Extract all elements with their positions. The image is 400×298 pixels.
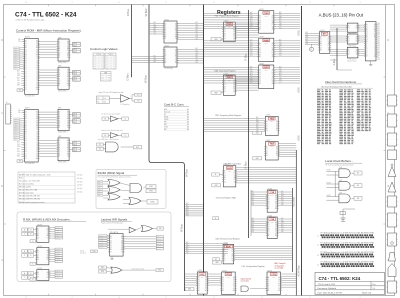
- svg-text:D05: D05: [306, 35, 309, 37]
- svg-text:LS244: LS244: [268, 215, 273, 217]
- svg-text:M2 LDB, LDB4, FID CFB, GW: M2 LDB, LDB4, FID CFB, GW: [19, 196, 40, 198]
- svg-text:D4: D4: [67, 72, 69, 74]
- svg-text:6: 6: [118, 2, 119, 4]
- svg-text:Q5: Q5: [328, 41, 330, 43]
- svg-text:D4: D4: [47, 252, 49, 254]
- svg-text:Date: 2017-05-30, 7:57 PM: Date: 2017-05-30, 7:57 PM: [318, 291, 342, 294]
- svg-text:D05: D05: [281, 220, 284, 222]
- svg-text:D1: D1: [259, 72, 261, 74]
- svg-text:Q8: Q8: [67, 151, 69, 153]
- svg-text:WR2: WR2: [306, 37, 309, 39]
- svg-text:CE1: CE1: [18, 112, 21, 114]
- svg-text:AOX: AOX: [297, 135, 301, 141]
- svg-text:LS157: LS157: [224, 164, 229, 166]
- svg-text:D1: D1: [36, 89, 38, 91]
- svg-text:RD1: RD1: [281, 200, 284, 202]
- svg-text:D1: D1: [348, 52, 350, 54]
- svg-text:3: 3: [261, 2, 262, 4]
- svg-text:Q14: Q14: [98, 195, 101, 197]
- svg-text:GND: GND: [18, 161, 21, 163]
- svg-text:RD1: RD1: [279, 75, 282, 77]
- svg-text:Q5: Q5: [67, 46, 69, 48]
- svg-text:MIR.B: MIR.B: [73, 74, 77, 76]
- svg-text:Q2: Q2: [259, 47, 261, 49]
- svg-text:RD1: RD1: [306, 41, 309, 43]
- svg-text:Q5: Q5: [224, 181, 226, 183]
- svg-text:D4: D4: [198, 286, 200, 288]
- svg-text:D1: D1: [110, 238, 112, 240]
- svg-text:Q8: Q8: [25, 58, 27, 60]
- svg-text:D: D: [388, 39, 390, 42]
- svg-text:DWR: DWR: [264, 67, 270, 69]
- svg-text:MIR.B: MIR.B: [73, 80, 77, 82]
- svg-text:WR2: WR2: [186, 246, 189, 248]
- svg-text:Q2: Q2: [366, 28, 368, 30]
- svg-text:D05: D05: [250, 14, 253, 16]
- svg-text:TC2: TC2: [106, 60, 109, 62]
- svg-text:LS74 (pipeline): LS74 (pipeline): [121, 104, 130, 106]
- svg-text:ROM 0: ROM 0: [25, 37, 30, 39]
- svg-text:Q8: Q8: [272, 26, 274, 28]
- svg-text:CK0: CK0: [250, 23, 253, 25]
- svg-text:Q8: Q8: [272, 81, 274, 83]
- svg-text:D4: D4: [37, 259, 39, 261]
- svg-text:D1: D1: [222, 279, 224, 281]
- svg-text:Q5: Q5: [234, 175, 236, 177]
- svg-text:D4: D4: [272, 45, 274, 47]
- svg-text:D1: D1: [266, 149, 268, 151]
- svg-text:C74 - TTL 6502: K24: C74 - TTL 6502: K24: [319, 276, 361, 281]
- svg-text:PHI2: PHI2: [149, 191, 153, 193]
- svg-text:RD1: RD1: [279, 48, 282, 50]
- svg-text:GND: GND: [215, 262, 218, 264]
- svg-text:Q8: Q8: [233, 91, 235, 93]
- svg-text:Q5: Q5: [67, 145, 69, 147]
- svg-text:G/Q: G/Q: [200, 274, 204, 276]
- svg-text:RD1: RD1: [17, 80, 20, 82]
- svg-text:D4: D4: [165, 32, 167, 34]
- svg-text:Q5: Q5: [276, 126, 278, 128]
- svg-text:Q8: Q8: [272, 54, 274, 56]
- svg-text:Inter-Card Connections: Inter-Card Connections: [325, 80, 357, 84]
- svg-text:LS299: LS299: [270, 121, 274, 123]
- svg-text:Q14: Q14: [279, 28, 282, 30]
- svg-text:Control ROM - MIR (Micro-Instr: Control ROM - MIR (Micro-Instruction Reg…: [16, 29, 82, 33]
- svg-text:Q5: Q5: [25, 123, 27, 125]
- svg-text:LS245: LS245: [164, 45, 169, 47]
- svg-text:CK0: CK0: [252, 229, 255, 231]
- svg-text:LS299: LS299: [264, 43, 268, 45]
- svg-text:Q5: Q5: [231, 254, 233, 256]
- svg-text:Q14: Q14: [196, 38, 199, 40]
- svg-text:Q5: Q5: [36, 116, 38, 118]
- svg-text:G: G: [32, 263, 33, 265]
- svg-text:LS574: LS574: [320, 30, 325, 32]
- svg-text:Q5: Q5: [320, 47, 322, 49]
- svg-text:x00 0(x): x00 0(x): [77, 181, 83, 183]
- svg-text:D1: D1: [165, 26, 167, 28]
- svg-text:Q5: Q5: [67, 74, 69, 76]
- svg-text:RD1: RD1: [186, 250, 189, 252]
- svg-text:WR: WR: [159, 228, 161, 230]
- svg-text:TC1: TC1: [106, 58, 109, 60]
- svg-text:WR2: WR2: [281, 195, 284, 197]
- svg-text:Q8: Q8: [67, 123, 69, 125]
- svg-text:D4: D4: [259, 24, 261, 26]
- svg-text:WR2: WR2: [154, 59, 157, 61]
- svg-text:Φ1/Φ2 (6502) Signal: Φ1/Φ2 (6502) Signal: [98, 171, 125, 175]
- svg-text:Q2: Q2: [259, 74, 261, 76]
- svg-text:D7: D7: [275, 231, 277, 233]
- svg-text:Q2: Q2: [59, 145, 61, 147]
- svg-text:D7: D7: [165, 38, 167, 40]
- svg-text:MIR.B: MIR.B: [73, 144, 77, 146]
- svg-text:CE0: CE0: [18, 39, 21, 41]
- svg-text:D4: D4: [121, 238, 123, 240]
- svg-text:Rev: Rev: [373, 284, 376, 286]
- svg-text:CK0: CK0: [252, 202, 255, 204]
- svg-text:D4: D4: [275, 197, 277, 199]
- svg-text:D7: D7: [59, 85, 61, 87]
- svg-text:IO5: IO5: [14, 139, 16, 141]
- svg-text:Q8: Q8: [234, 181, 236, 183]
- svg-text:D4: D4: [36, 43, 38, 45]
- svg-text:CH: Drive Register High: CH: Drive Register High: [216, 197, 236, 200]
- svg-text:D7: D7: [278, 286, 280, 288]
- svg-text:D1: D1: [59, 72, 61, 74]
- svg-text:W Bus: W Bus: [143, 74, 147, 82]
- svg-text:D4: D4: [36, 114, 38, 116]
- svg-text:WR2: WR2: [252, 222, 255, 224]
- svg-text:J2: J2: [317, 245, 319, 247]
- svg-text:AOX: AOX: [297, 87, 301, 93]
- svg-text:CK0: CK0: [279, 77, 282, 79]
- svg-text:C: C: [24, 255, 25, 257]
- svg-text:D4: D4: [268, 204, 270, 206]
- svg-text:0x6: 0x6: [101, 68, 103, 70]
- svg-text:LS299: LS299: [227, 277, 231, 279]
- svg-text:D4: D4: [233, 279, 235, 281]
- svg-text:Q8: Q8: [67, 52, 69, 54]
- svg-text:D7: D7: [272, 79, 274, 81]
- svg-text:B: B: [30, 251, 31, 253]
- svg-text:A23 Bus: A23 Bus: [292, 196, 296, 207]
- svg-text:PWR: PWR: [264, 40, 270, 42]
- svg-text:D1: D1: [348, 38, 350, 40]
- svg-text:Q2: Q2: [222, 281, 224, 283]
- svg-text:S0: S0: [99, 148, 101, 150]
- svg-text:D7: D7: [366, 37, 368, 39]
- svg-text:BU5: Environmental Register: BU5: Environmental Register: [216, 238, 241, 241]
- svg-text:AOX: AOX: [297, 30, 301, 36]
- svg-text:Q5: Q5: [233, 281, 235, 283]
- svg-text:Q5: Q5: [59, 81, 61, 83]
- svg-text:Q14: Q14: [250, 55, 253, 57]
- svg-text:CK0: CK0: [250, 77, 253, 79]
- svg-text:CK: CK: [104, 135, 106, 137]
- svg-text:D7: D7: [36, 120, 38, 122]
- svg-text:WR2: WR2: [250, 71, 253, 73]
- svg-text:D4: D4: [37, 238, 39, 240]
- svg-text:C: C: [24, 277, 25, 279]
- svg-text:WR2: WR2: [281, 222, 284, 224]
- svg-text:Sheet: 1/3: Sheet: 1/3: [362, 291, 372, 294]
- svg-text:Q5: Q5: [268, 233, 270, 235]
- svg-text:Q5: Q5: [278, 281, 280, 283]
- svg-text:GND: GND: [215, 185, 218, 187]
- svg-text:LS299: LS299: [264, 70, 268, 72]
- svg-text:EN3: EN3: [281, 204, 284, 206]
- svg-text:Q2: Q2: [224, 175, 226, 177]
- svg-text:D7: D7: [47, 238, 49, 240]
- svg-text:(MIR) (MIR) 1: (MIR) (MIR) 1: [58, 162, 67, 164]
- svg-text:D05: D05: [252, 220, 255, 222]
- svg-text:Q14: Q14: [250, 82, 253, 84]
- svg-text:TC2: TC2: [101, 78, 104, 80]
- svg-text:WR2: WR2: [279, 16, 282, 18]
- svg-text:Q2: Q2: [268, 199, 270, 201]
- svg-text:C: C: [1, 112, 3, 115]
- svg-text:WR2: WR2: [252, 195, 255, 197]
- svg-text:Q5: Q5: [59, 151, 61, 153]
- svg-text:D4: D4: [224, 258, 226, 260]
- svg-text:CK0: CK0: [154, 33, 157, 35]
- svg-text:D7: D7: [47, 259, 49, 261]
- svg-text:D05: D05: [250, 69, 253, 71]
- svg-text:EN3: EN3: [252, 204, 255, 206]
- svg-text:TC5: TC5: [94, 66, 97, 68]
- svg-text:MIR.B: MIR.B: [73, 150, 77, 152]
- svg-text:EN3: EN3: [17, 85, 20, 87]
- svg-text:Q2: Q2: [348, 54, 350, 56]
- svg-text:RD1: RD1: [196, 32, 199, 34]
- svg-text:D1: D1: [59, 44, 61, 46]
- svg-text:Document: Subburb: Document: Subburb: [318, 287, 337, 290]
- svg-text:D7: D7: [272, 52, 274, 54]
- svg-text:1: 1: [359, 2, 360, 4]
- svg-text:D7: D7: [67, 149, 69, 151]
- svg-text:CPQ: CPQ: [271, 274, 276, 276]
- svg-text:LS245: LS245: [164, 19, 169, 21]
- svg-text:Q2: Q2: [59, 116, 61, 118]
- svg-text:Q5: Q5: [165, 34, 167, 36]
- svg-text:0x1: 0x1: [108, 76, 110, 78]
- svg-text:D4: D4: [268, 286, 270, 288]
- svg-text:RD1: RD1: [196, 57, 199, 59]
- svg-text:D05: D05: [279, 69, 282, 71]
- svg-text:x00 0(x): x00 0(x): [77, 192, 83, 194]
- svg-text:Q2: Q2: [37, 233, 39, 235]
- svg-text:D7: D7: [234, 179, 236, 181]
- svg-text:Q2: Q2: [198, 281, 200, 283]
- svg-text:CE0: CE0: [18, 110, 21, 112]
- svg-text:A Bus: A Bus: [332, 58, 336, 65]
- svg-text:D4: D4: [266, 130, 268, 132]
- svg-text:Q8: Q8: [36, 123, 38, 125]
- svg-text:0x2: 0x2: [113, 60, 115, 62]
- svg-text:P-47/00R-M52: P-47/00R-M52: [25, 95, 35, 97]
- svg-text:4: 4: [213, 2, 214, 4]
- svg-text:Q5: Q5: [259, 54, 261, 56]
- svg-text:D7: D7: [175, 58, 177, 60]
- svg-text:Q2: Q2: [266, 126, 268, 128]
- svg-text:Q8: Q8: [233, 288, 235, 290]
- svg-text:EN3: EN3: [279, 80, 282, 82]
- svg-text:D4: D4: [59, 50, 61, 52]
- svg-text:Q2: Q2: [59, 74, 61, 76]
- svg-text:Q5: Q5: [198, 288, 200, 290]
- svg-text:D05: D05: [281, 193, 284, 195]
- svg-text:D1: D1: [59, 142, 61, 144]
- svg-text:Q8: Q8: [205, 288, 207, 290]
- svg-text:74LS245 (B): 74LS245 (B): [164, 68, 173, 70]
- svg-text:0x0: 0x0: [113, 56, 115, 58]
- svg-text:7: 7: [71, 2, 72, 4]
- svg-text:GND: GND: [256, 133, 259, 135]
- svg-text:Q5: Q5: [59, 52, 61, 54]
- svg-text:D4: D4: [25, 120, 27, 122]
- svg-text:WRL: WRL: [101, 271, 104, 273]
- svg-text:LS377: LS377: [266, 140, 271, 142]
- svg-text:WR2: WR2: [196, 53, 199, 55]
- svg-text:Q5: Q5: [272, 20, 274, 22]
- svg-text:D05: D05: [186, 205, 189, 207]
- svg-text:D4: D4: [25, 50, 27, 52]
- svg-text:Q5: Q5: [25, 52, 27, 54]
- svg-text:(LS-04: (LS-04: [80, 251, 84, 253]
- svg-text:D4: D4: [272, 18, 274, 20]
- svg-text:D7: D7: [232, 258, 234, 260]
- svg-text:Card B-C Conn: Card B-C Conn: [164, 103, 184, 107]
- svg-text:WR2: WR2: [279, 71, 282, 73]
- svg-text:MIR.B: MIR.B: [73, 45, 77, 47]
- svg-text:C: C: [24, 234, 25, 236]
- svg-text:Q5: Q5: [259, 81, 261, 83]
- svg-text:LS299: LS299: [270, 195, 274, 197]
- svg-text:S/STB: S/STB: [326, 170, 330, 172]
- svg-text:D1: D1: [268, 197, 270, 199]
- svg-text:TC5: TC5: [106, 66, 109, 68]
- svg-text:x00 0(x): x00 0(x): [77, 178, 83, 180]
- svg-text:Q5: Q5: [47, 254, 49, 256]
- svg-text:D4: D4: [278, 279, 280, 281]
- svg-text:D4: D4: [232, 251, 234, 253]
- svg-text:PH2: PH2: [101, 267, 104, 269]
- svg-text:Control Logic Values: Control Logic Values: [90, 47, 118, 51]
- svg-text:TC4: TC4: [106, 64, 109, 66]
- svg-text:LS299: LS299: [259, 37, 264, 39]
- svg-text:GND: GND: [18, 90, 21, 92]
- svg-text:D05: D05: [279, 14, 282, 16]
- svg-text:CK0: CK0: [256, 128, 259, 130]
- svg-text:D4: D4: [224, 179, 226, 181]
- svg-text:W Bud: W Bud: [144, 8, 148, 16]
- svg-text:CK0: CK0: [196, 34, 199, 36]
- svg-text:D7: D7: [276, 155, 278, 157]
- svg-text:D1: D1: [259, 18, 261, 20]
- svg-text:D1: D1: [348, 28, 350, 30]
- svg-text:D: D: [1, 39, 3, 42]
- svg-text:Q1: Q1: [104, 102, 106, 104]
- svg-text:(MIR) (MIR) 1: (MIR) (MIR) 1: [58, 62, 67, 64]
- svg-text:D1: D1: [37, 274, 39, 276]
- svg-text:1 3 5 7 9 11 13 15 17: 1 3 5 7 9 11 13 15 17 19 21 23 25 27 29 …: [320, 248, 347, 250]
- svg-text:D4: D4: [205, 279, 207, 281]
- svg-text:Q8: Q8: [275, 233, 277, 235]
- svg-text:(MIR) (MIR) 1: (MIR) (MIR) 1: [58, 90, 67, 92]
- svg-text:LS299: LS299: [259, 63, 264, 65]
- svg-text:LS374: LS374: [222, 270, 227, 272]
- svg-text:D4: D4: [259, 79, 261, 81]
- svg-text:EN3: EN3: [281, 231, 284, 233]
- svg-text:Q8: Q8: [121, 247, 123, 249]
- svg-text:D1: D1: [37, 231, 39, 233]
- svg-text:Q5: Q5: [59, 123, 61, 125]
- svg-text:R Bus: R Bus: [244, 161, 248, 169]
- svg-text:D4: D4: [59, 78, 61, 80]
- svg-text:D4: D4: [67, 142, 69, 144]
- svg-text:TC2: TC2: [94, 60, 97, 62]
- svg-text:WR2: WR2: [17, 146, 20, 148]
- svg-text:Local Clock Buffers...: Local Clock Buffers...: [325, 159, 353, 163]
- svg-text:TC0: TC0: [101, 75, 104, 77]
- svg-text:D4: D4: [374, 26, 376, 28]
- svg-text:Q8: Q8: [175, 60, 177, 62]
- svg-text:Q5: Q5: [224, 91, 226, 93]
- svg-text:D4: D4: [59, 120, 61, 122]
- svg-text:D4: D4: [266, 155, 268, 157]
- svg-text:LS299: LS299: [264, 15, 268, 17]
- svg-text:Q2: Q2: [37, 254, 39, 256]
- svg-text:D4: D4: [328, 39, 330, 41]
- svg-text:WR2: WR2: [186, 207, 189, 209]
- svg-text:Q8: Q8: [175, 34, 177, 36]
- svg-text:Q8: Q8: [25, 129, 27, 131]
- svg-text:D4: D4: [356, 38, 358, 40]
- svg-text:0x5: 0x5: [101, 66, 103, 68]
- svg-text:W Bus: W Bus: [180, 223, 184, 231]
- svg-text:D1: D1: [165, 52, 167, 54]
- svg-text:D7: D7: [276, 130, 278, 132]
- svg-text:D7: D7: [272, 24, 274, 26]
- svg-text:EN3: EN3: [196, 62, 199, 64]
- svg-text:RD1: RD1: [250, 75, 253, 77]
- svg-text:EN3: EN3: [250, 25, 253, 27]
- svg-text:Q5: Q5: [110, 247, 112, 249]
- svg-text:D4: D4: [165, 58, 167, 60]
- svg-text:LS138: LS138: [37, 246, 42, 248]
- svg-text:x00 0(x): x00 0(x): [77, 188, 83, 190]
- svg-text:Q2: Q2: [165, 28, 167, 30]
- svg-text:C74 - TTL 6502 - K24: C74 - TTL 6502 - K24: [15, 12, 77, 19]
- svg-text:CK0: CK0: [250, 51, 253, 53]
- svg-text:D05: D05: [256, 120, 259, 122]
- svg-text:Q5: Q5: [175, 28, 177, 30]
- svg-text:D1: D1: [366, 26, 368, 28]
- svg-text:Q2: Q2: [348, 40, 350, 42]
- svg-text:Q2: Q2: [165, 54, 167, 56]
- svg-text:GND: GND: [188, 289, 191, 291]
- svg-text:D4: D4: [67, 44, 69, 46]
- svg-text:D4: D4: [356, 52, 358, 54]
- svg-text:LS374: LS374: [198, 270, 203, 272]
- svg-text:D7: D7: [233, 286, 235, 288]
- svg-text:CK0: CK0: [306, 43, 309, 45]
- svg-text:D7: D7: [233, 89, 235, 91]
- svg-text:EN3: EN3: [250, 80, 253, 82]
- svg-text:D05: D05: [196, 25, 199, 27]
- svg-text:D7: D7: [205, 286, 207, 288]
